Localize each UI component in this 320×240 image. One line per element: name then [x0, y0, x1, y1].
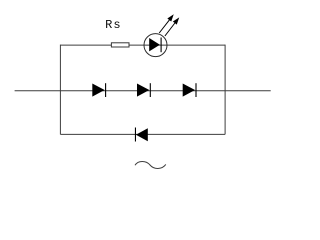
svg-text:s: s	[113, 18, 120, 32]
svg-text:R: R	[105, 18, 112, 32]
